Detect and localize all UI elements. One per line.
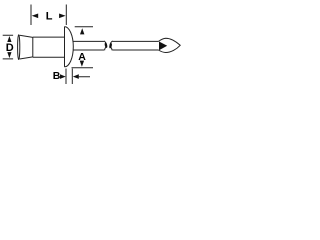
svg-text:A: A — [78, 51, 86, 63]
svg-text:B: B — [53, 70, 61, 82]
svg-text:L: L — [46, 10, 53, 22]
svg-text:D: D — [6, 42, 14, 54]
